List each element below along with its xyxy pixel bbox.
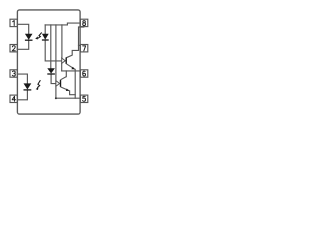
LED D3 channel 1 <box>25 34 33 41</box>
wire tee to pin7 <box>79 44 81 46</box>
pin 7 label <box>83 46 86 51</box>
wire photodiode D2 anode <box>50 25 52 68</box>
pin 8 label <box>83 21 86 26</box>
wire LED2 cathode to pin4 <box>17 90 27 100</box>
pin 2 label <box>12 46 15 51</box>
amplifier U2 channel 1 <box>62 58 65 63</box>
pin 3 label <box>12 71 15 76</box>
amplifier U3 channel 2 <box>56 81 60 87</box>
pin 4 label <box>12 96 15 101</box>
pin 7 box <box>80 45 87 52</box>
wire node VO2 to pin6 <box>62 70 81 72</box>
pin 8 box <box>80 19 87 26</box>
wire Q1 collector riser <box>66 27 83 58</box>
photodiode D2 channel 2 <box>47 68 55 74</box>
package outline U1 <box>17 10 80 114</box>
wire Q2 collector riser <box>65 71 67 77</box>
wire ground rail <box>74 69 76 98</box>
wire amp U2 lower lead <box>61 63 63 71</box>
photodiode D1 channel 1 <box>42 34 49 40</box>
wire photodiode D1 anode <box>44 25 46 34</box>
light arrow channel 1 <box>35 33 42 41</box>
transistor Q2 base bar <box>60 80 62 87</box>
light arrow channel 2 <box>35 80 40 90</box>
pin 5 label <box>83 96 86 101</box>
transistor Q1 base bar <box>65 58 67 64</box>
pin 4 box <box>10 95 17 102</box>
pin 3 box <box>10 70 17 77</box>
pin 6 label <box>83 71 86 76</box>
pin 2 box <box>10 45 17 52</box>
pin number digits (drawn as paths) <box>12 21 85 102</box>
wire photodiode D1 cathode to amp U2 input <box>45 40 62 61</box>
wire amp U2 supply <box>61 25 63 58</box>
wire top rail to pin8 <box>45 23 80 25</box>
pin 5 box <box>80 95 87 102</box>
transistor Q2 collector lead <box>61 77 67 80</box>
wire ground bus to pin5 <box>56 97 81 99</box>
transistor Q2 emitter arrow <box>61 87 70 91</box>
LED D4 channel 2 <box>24 83 32 90</box>
wire pin1 to LED1 anode <box>17 24 28 33</box>
pin 1 label <box>13 21 15 26</box>
pin 1 box <box>10 19 17 26</box>
wire amp U3 supply <box>55 25 57 98</box>
wire Q2 emitter to ground rail <box>70 91 76 95</box>
junction node dot <box>55 97 57 99</box>
wire pin3 to LED2 anode <box>17 74 27 83</box>
wire photodiode D2 cathode to amp U3 input <box>51 74 56 84</box>
pin 6 box <box>80 70 87 77</box>
wire LED1 cathode to pin2 <box>17 40 28 49</box>
transistor Q1 emitter arrow <box>66 64 75 70</box>
